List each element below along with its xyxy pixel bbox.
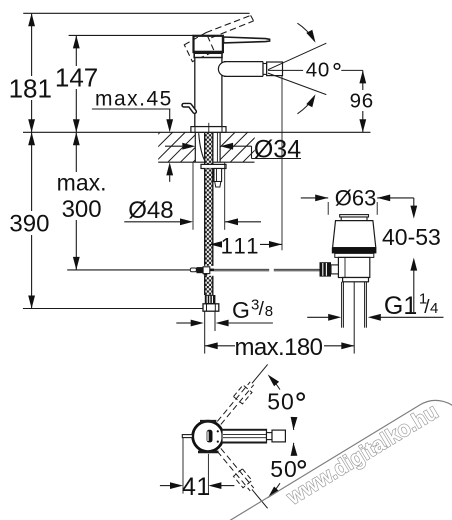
handle-top reference line (147 level) — [69, 34, 194, 36]
hose crimp ferrule — [205, 295, 216, 304]
svg-text:G: G — [232, 297, 250, 323]
housing bottom rim — [194, 53, 222, 57]
lower spray fan line — [268, 73, 326, 95]
dimension Ø63 arrows — [301, 197, 328, 199]
hose below rod fitting — [204, 274, 208, 276]
svg-text:Ø34: Ø34 — [254, 135, 301, 163]
top view: lever bar — [222, 429, 267, 443]
braided supply hose (knurled) lower — [204, 276, 213, 295]
dimension max.300 (vertical line) — [75, 132, 77, 270]
upper 40-deg arc with arrow — [297, 23, 314, 41]
Ø34 leader and underline — [251, 146, 253, 158]
spray centerline from aerator — [268, 69, 303, 71]
extension lines for 41 — [182, 438, 184, 494]
dimension 40-53 vertical arrows — [413, 198, 415, 206]
svg-text:147: 147 — [55, 63, 98, 93]
drain push cap — [340, 215, 369, 217]
dimension max.180 line and arrows — [205, 345, 355, 347]
svg-text:max.180: max.180 — [234, 334, 322, 361]
horizontal pop-up rod left segment — [214, 268, 269, 270]
lower 50-deg arc with arrows — [269, 483, 280, 497]
svg-text:/: / — [259, 299, 265, 320]
tailpiece tube G1 1/4 — [341, 282, 343, 328]
svg-text:max.45: max.45 — [95, 87, 173, 110]
svg-text:96: 96 — [350, 90, 374, 113]
max.45 leader arrow down to deck top — [169, 109, 171, 121]
supply-connection reference line (390 bottom) — [23, 308, 203, 310]
mounting washer under deck — [201, 164, 226, 168]
pop-up knob on back of body — [184, 105, 195, 111]
dimension 111 line and arrows — [210, 243, 282, 245]
pop-up rod fitting at faucet — [190, 268, 196, 272]
svg-text:Ø48: Ø48 — [128, 197, 173, 224]
top view: lever neck step — [267, 433, 273, 440]
top view: lever end cap — [272, 430, 285, 442]
supply tube below nut — [204, 311, 206, 353]
flexible hose curve inside shank — [199, 133, 206, 162]
faucet base plate — [191, 127, 226, 133]
drain valve body — [338, 257, 369, 277]
svg-text:40: 40 — [306, 59, 330, 82]
upper 50-deg arc with arrows — [269, 376, 280, 390]
faucet cartridge housing — [194, 36, 223, 52]
svg-text:G1: G1 — [384, 292, 417, 320]
spout left rounded end — [218, 62, 226, 77]
tailpiece collar — [343, 278, 369, 282]
Ø63 extension lines — [327, 202, 329, 215]
svg-text:max.: max. — [57, 169, 107, 195]
dimension Ø48 arrows — [124, 221, 181, 223]
dashed housing outline (tilted position) — [184, 33, 214, 62]
top view: faucet body circle — [193, 421, 223, 451]
pop-up rod knob on drain — [320, 262, 332, 276]
svg-text:www.digitalko.hu: www.digitalko.hu — [281, 399, 442, 510]
dimension 41 arrows — [160, 485, 171, 487]
aerator extension line — [281, 76, 283, 250]
svg-text:41: 41 — [182, 473, 211, 501]
svg-text:50: 50 — [270, 456, 298, 482]
G3/8 connection nut — [203, 304, 219, 311]
extension lines for Ø48 (base plate diameter) — [192, 163, 194, 230]
dashed lever handle (raised position) — [206, 15, 251, 32]
upper spray fan line — [268, 43, 326, 69]
dimension Ø34 arrows at shank — [165, 145, 182, 147]
braided supply hose (knurled) upper — [204, 133, 213, 164]
svg-text:4: 4 — [430, 300, 438, 317]
top reference line (spout top level) — [23, 12, 249, 14]
spout tube — [224, 62, 263, 77]
dimension G3/8 arrows — [176, 322, 191, 324]
washer under seal ring — [335, 253, 374, 257]
max.45 arrow up to deck underside — [169, 175, 171, 181]
svg-text:Ø63: Ø63 — [335, 186, 377, 211]
horizontal pop-up rod right segment — [274, 268, 320, 270]
svg-text:390: 390 — [9, 211, 49, 238]
top view: rear pin — [182, 435, 192, 438]
svg-text:50: 50 — [267, 388, 295, 414]
top view: index dots — [217, 430, 219, 432]
svg-text:40-53: 40-53 — [382, 224, 441, 250]
knob stem — [331, 265, 338, 274]
svg-text:111: 111 — [221, 233, 261, 258]
pop-up rod reference line (max.300 bottom) — [67, 269, 190, 271]
threaded shank through countertop — [194, 132, 196, 162]
lever handle (horizontal) — [224, 37, 270, 43]
top view: top rim flat — [200, 420, 216, 423]
top view: cartridge opening (dark) — [207, 430, 213, 443]
dimension 147 (vertical line) — [75, 35, 77, 132]
degree symbol of 40 — [334, 64, 340, 70]
body center line — [208, 123, 210, 132]
drain flange dome — [333, 221, 376, 248]
aerator connector ring — [263, 64, 267, 75]
watermark band www.digitalko.hu — [177, 389, 452, 520]
aerator / mousseur — [267, 62, 283, 76]
lower 40-deg arc with arrow — [297, 96, 314, 114]
top view: bottom rim flat — [198, 451, 219, 454]
svg-text:300: 300 — [62, 196, 102, 223]
pop-up rod guide fitting — [214, 169, 222, 182]
countertop hatching left — [130, 132, 223, 162]
dimension 181 (vertical line) — [31, 13, 33, 132]
faucet body column — [195, 58, 222, 127]
countertop hatching right — [205, 132, 286, 162]
svg-text:181: 181 — [9, 73, 52, 103]
top view: dashed lever at 50 deg up — [215, 361, 272, 427]
dimension 390 (vertical line) — [31, 132, 33, 308]
pop-up rod inside tailpiece / extension line — [353, 282, 355, 354]
top view: dashed lever at 50 deg down — [215, 446, 272, 512]
deck underside line — [158, 161, 254, 163]
svg-text:8: 8 — [265, 303, 273, 320]
dimension G1 1/4 arrows — [307, 316, 328, 318]
drain flange seal ring (dark) — [332, 248, 377, 254]
dimension 96 (vertical line) — [362, 70, 364, 132]
braided supply hose (knurled) middle — [204, 169, 213, 266]
deck surface reference line — [23, 131, 371, 133]
